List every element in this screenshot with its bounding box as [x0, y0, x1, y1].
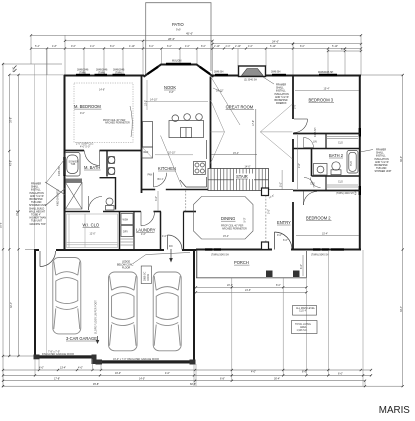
car 2 — [109, 272, 138, 351]
kitchen bottom wall — [142, 189, 156, 191]
svg-text:M. BEDROOM: M. BEDROOM — [74, 104, 101, 109]
svg-text:2'-10": 2'-10" — [214, 45, 220, 48]
BR3 closet row — [293, 148, 360, 150]
left wall — [64, 75, 66, 250]
svg-text:28'-6": 28'-6" — [168, 37, 175, 41]
svg-text:GRANITE TOP: GRANITE TOP — [30, 223, 47, 226]
BR3 door arc — [294, 119, 308, 133]
svg-text:4046 PM: 4046 PM — [58, 166, 61, 176]
closet divider walls — [119, 212, 121, 250]
svg-text:2'-8": 2'-8" — [298, 163, 301, 168]
kitchen diagonal ceiling line — [161, 77, 241, 187]
bath2 / BR2 walls — [312, 175, 361, 177]
front entry door — [275, 232, 293, 250]
svg-text:8'-0": 8'-0" — [302, 371, 307, 374]
svg-text:9'-0": 9'-0" — [277, 234, 282, 237]
LEDGE text — [117, 261, 134, 270]
svg-text:DRY: DRY — [123, 231, 128, 234]
svg-text:LIN: LIN — [313, 141, 317, 144]
svg-text:(TWIN) 5045 SH: (TWIN) 5045 SH — [211, 253, 229, 256]
right dimension line — [361, 75, 403, 387]
svg-text:FIREBOX: FIREBOX — [276, 102, 287, 105]
svg-text:LAUNDRY: LAUNDRY — [136, 227, 156, 232]
svg-text:ARCHED PERIMETER: ARCHED PERIMETER — [222, 227, 247, 230]
svg-text:15'-4": 15'-4" — [233, 152, 239, 155]
svg-text:5'-4": 5'-4" — [35, 45, 40, 48]
svg-text:4046 SH: 4046 SH — [314, 127, 317, 137]
M bedroom bottom wall — [64, 150, 142, 152]
svg-text:6'-0": 6'-0" — [167, 45, 172, 48]
BR2 door arc — [304, 192, 318, 206]
svg-text:WSH: WSH — [123, 219, 129, 222]
svg-text:6'-0": 6'-0" — [300, 264, 303, 269]
top dimension line tier1 45'-6" — [31, 35, 361, 51]
svg-text:9'-0": 9'-0" — [80, 112, 85, 115]
svg-text:16'-0": 16'-0" — [115, 372, 121, 375]
svg-text:60'-8": 60'-8" — [190, 383, 196, 386]
svg-text:5'-10": 5'-10" — [332, 45, 338, 48]
svg-text:CLO: CLO — [338, 181, 343, 184]
small rotated box in garage — [141, 266, 151, 284]
svg-text:NOOK: NOOK — [164, 85, 176, 90]
svg-text:4'-10": 4'-10" — [129, 45, 135, 48]
svg-text:4'-6": 4'-6" — [248, 45, 253, 48]
right dim ticks — [402, 74, 404, 387]
shower bench — [66, 179, 83, 183]
dashed line below stair — [265, 196, 267, 249]
FRAMER text left — [29, 183, 47, 226]
svg-text:4'-0": 4'-0" — [162, 235, 167, 238]
exterior walls: top wall with nook bay — [64, 65, 361, 77]
svg-text:12'-0": 12'-0" — [90, 233, 96, 236]
svg-text:15'-4": 15'-4" — [322, 233, 328, 236]
front wall with entry door gap — [196, 249, 361, 251]
svg-text:DOOR: DOOR — [147, 274, 150, 281]
left dim ticks — [2, 63, 20, 387]
svg-text:3-CAR GARAGE: 3-CAR GARAGE — [66, 336, 97, 341]
FRAMER text top (firebox) — [275, 84, 290, 106]
svg-text:TUB: TUB — [71, 163, 76, 166]
svg-text:(TWIN) 4046 SH: (TWIN) 4046 SH — [336, 192, 354, 195]
svg-text:DN: DN — [169, 245, 173, 248]
svg-text:30'-4": 30'-4" — [400, 306, 403, 312]
garage wall extension lines — [35, 359, 194, 386]
svg-text:4'-0": 4'-0" — [90, 45, 95, 48]
svg-text:FLOOR: FLOOR — [122, 267, 131, 270]
great room / hall wall — [292, 77, 294, 250]
svg-text:16'-8": 16'-8" — [10, 117, 13, 123]
left dimension lines — [2, 49, 64, 386]
newel post — [262, 188, 269, 196]
svg-text:MULION: MULION — [172, 60, 182, 63]
svg-text:5'-0": 5'-0" — [279, 182, 282, 187]
svg-text:1,946 S.F.: 1,946 S.F. — [297, 329, 308, 332]
svg-text:3'-0": 3'-0" — [155, 196, 158, 201]
svg-text:STAIR: STAIR — [236, 174, 248, 179]
BR3 bottom wall — [293, 133, 360, 135]
pantry cabinet / fridge — [142, 122, 153, 159]
hall wall bath2 — [311, 149, 313, 177]
svg-text:2'-10": 2'-10" — [235, 45, 241, 48]
car 3 — [153, 272, 181, 351]
door jambs — [34, 355, 40, 360]
bottom dim tiers — [3, 370, 371, 386]
svg-text:6'-8": 6'-8" — [220, 377, 225, 380]
svg-text:PAN: PAN — [148, 174, 153, 177]
svg-text:3046 SH: 3046 SH — [214, 71, 224, 74]
svg-text:SHOWER UNIT: SHOWER UNIT — [375, 170, 393, 173]
svg-text:32'-4": 32'-4" — [10, 302, 13, 308]
bay window sashes — [148, 67, 211, 74]
svg-text:24'-6": 24'-6" — [245, 289, 251, 292]
svg-text:4'-0" 5'-0": 4'-0" 5'-0" — [80, 145, 90, 148]
svg-text:45'-6": 45'-6" — [186, 32, 193, 36]
porch posts — [266, 271, 273, 278]
svg-text:6'-0": 6'-0" — [283, 239, 288, 242]
svg-text:9'-8": 9'-8" — [169, 91, 174, 94]
svg-text:4'-0": 4'-0" — [78, 367, 83, 370]
svg-text:30'-4": 30'-4" — [274, 377, 280, 380]
top dim tick marks — [30, 34, 362, 52]
svg-text:14'-6": 14'-6" — [99, 89, 105, 92]
right wall windows — [359, 128, 361, 137]
svg-text:15'-4": 15'-4" — [223, 235, 229, 238]
post at porch wall — [262, 242, 269, 250]
svg-text:(2) 3046 SH: (2) 3046 SH — [244, 79, 257, 82]
FRAMER text right — [375, 149, 393, 174]
hall dim — [297, 135, 299, 189]
window labels above top wall — [77, 60, 334, 75]
svg-text:DINING: DINING — [221, 216, 235, 221]
svg-text:GREAT ROOM: GREAT ROOM — [226, 104, 254, 109]
island with stools — [169, 114, 204, 138]
svg-text:2'-4": 2'-4" — [226, 45, 231, 48]
svg-text:14'-10": 14'-10" — [150, 99, 158, 102]
svg-text:4060 SHOWER: 4060 SHOWER — [57, 189, 60, 206]
ALL MAIN LEVEL box — [293, 306, 317, 316]
shower with X — [45, 182, 82, 209]
svg-text:3'-0": 3'-0" — [294, 104, 297, 109]
svg-text:16'-10": 16'-10" — [216, 90, 224, 93]
extension lines below — [196, 250, 365, 386]
washer dryer — [121, 214, 133, 237]
top dim extension lines — [31, 35, 361, 76]
svg-text:4'-0": 4'-0" — [251, 371, 256, 374]
counters right — [180, 140, 207, 187]
svg-text:40'-8": 40'-8" — [10, 160, 13, 166]
garage entry door + DN — [168, 235, 183, 250]
soaker tub — [65, 153, 80, 177]
svg-text:TUB: TUB — [350, 161, 353, 166]
window sashes (dark) top wall — [76, 64, 337, 75]
vaulted ceiling lines — [211, 100, 293, 164]
svg-text:10'-0": 10'-0" — [144, 100, 147, 106]
garage walls — [35, 249, 197, 362]
STAIR — [208, 169, 269, 191]
svg-text:BATH 2: BATH 2 — [329, 153, 344, 158]
svg-text:ENTRY: ENTRY — [277, 220, 291, 225]
M.BEDROOM ceiling dotted rect — [74, 83, 133, 143]
svg-text:15'-8": 15'-8" — [16, 210, 19, 216]
front wall windows — [205, 248, 344, 250]
svg-text:INSULATED GARAGE DOOR: INSULATED GARAGE DOOR — [42, 353, 74, 356]
svg-text:(TWIN) 5045 SH: (TWIN) 5045 SH — [311, 253, 329, 256]
svg-text:14'-0": 14'-0" — [245, 166, 251, 169]
svg-text:8'-0": 8'-0" — [201, 45, 206, 48]
svg-text:4'-0": 4'-0" — [185, 45, 190, 48]
svg-text:6'-0": 6'-0" — [149, 45, 154, 48]
top dim labels — [35, 32, 346, 52]
svg-text:9'-6": 9'-6" — [71, 45, 76, 48]
svg-text:17'-6": 17'-6" — [252, 120, 255, 126]
svg-text:9'x9': 9'x9' — [176, 29, 181, 32]
svg-text:ARCHED PERIMETER: ARCHED PERIMETER — [105, 122, 130, 125]
svg-text:8'-0": 8'-0" — [276, 284, 281, 287]
svg-text:8'-0": 8'-0" — [300, 45, 305, 48]
svg-text:24'-6": 24'-6" — [272, 40, 279, 44]
svg-text:14'-0": 14'-0" — [139, 377, 145, 380]
bath mid wall — [100, 177, 116, 179]
patio outline — [146, 3, 211, 77]
svg-text:MARIS: MARIS — [379, 405, 410, 416]
svg-text:PORCH: PORCH — [234, 260, 249, 265]
bath door arcs — [85, 151, 103, 211]
svg-text:3'-0": 3'-0" — [267, 209, 270, 214]
svg-text:13'-4": 13'-4" — [60, 367, 66, 370]
svg-text:6'-6": 6'-6" — [341, 48, 346, 51]
svg-text:BU 4': BU 4' — [158, 178, 164, 181]
garage side door — [40, 251, 56, 267]
svg-text:45'-8": 45'-8" — [93, 383, 99, 386]
svg-text:BEDROOM 3: BEDROOM 3 — [309, 98, 334, 103]
svg-text:4'-6": 4'-6" — [141, 233, 146, 236]
svg-text:16'-0" x 7'-0" INSULATED GARAG: 16'-0" x 7'-0" INSULATED GARAGE DOOR — [113, 358, 159, 361]
svg-text:50'-8": 50'-8" — [0, 222, 3, 228]
svg-text:9046/9046 SH: 9046/9046 SH — [318, 71, 334, 74]
vanity wall + sinks — [106, 151, 108, 177]
svg-text:PATIO: PATIO — [172, 22, 184, 27]
nook / great room wall — [210, 77, 212, 169]
svg-text:SLOPE FLOOR 1/8 PER FOOT: SLOPE FLOOR 1/8 PER FOOT — [95, 300, 98, 334]
great room firebox bump — [239, 66, 266, 82]
svg-text:10'-10": 10'-10" — [168, 152, 176, 155]
stove — [194, 162, 206, 175]
svg-text:CLG 4': CLG 4' — [299, 310, 307, 313]
left wall window — [63, 157, 65, 176]
svg-text:36'-0": 36'-0" — [400, 156, 403, 162]
car 1 — [53, 258, 81, 334]
svg-text:4'-0": 4'-0" — [165, 372, 170, 375]
svg-text:17'-8": 17'-8" — [54, 377, 60, 380]
svg-text:3046 SH: 3046 SH — [271, 71, 281, 74]
svg-text:15'-4": 15'-4" — [324, 88, 330, 91]
porch dims — [196, 255, 307, 292]
svg-text:BEDROOM 2: BEDROOM 2 — [306, 216, 331, 221]
TOTAL LIVING AREA box — [292, 321, 318, 334]
right wall — [359, 75, 361, 250]
svg-text:5'-10": 5'-10" — [270, 45, 276, 48]
svg-text:5'-0": 5'-0" — [244, 218, 247, 223]
svg-text:6'-0": 6'-0" — [338, 373, 343, 376]
svg-text:8'-0": 8'-0" — [110, 45, 115, 48]
hall wall above closet — [64, 211, 196, 213]
svg-text:4'-8": 4'-8" — [52, 45, 57, 48]
DINING ceiling octagon — [194, 197, 254, 240]
bottom dim ticks — [2, 286, 372, 387]
kitchen west wall — [141, 77, 143, 194]
svg-text:M. BATH: M. BATH — [84, 165, 100, 170]
svg-text:CLO: CLO — [338, 142, 343, 145]
wc toilet — [106, 198, 115, 210]
garage doors dark bars — [39, 355, 93, 358]
